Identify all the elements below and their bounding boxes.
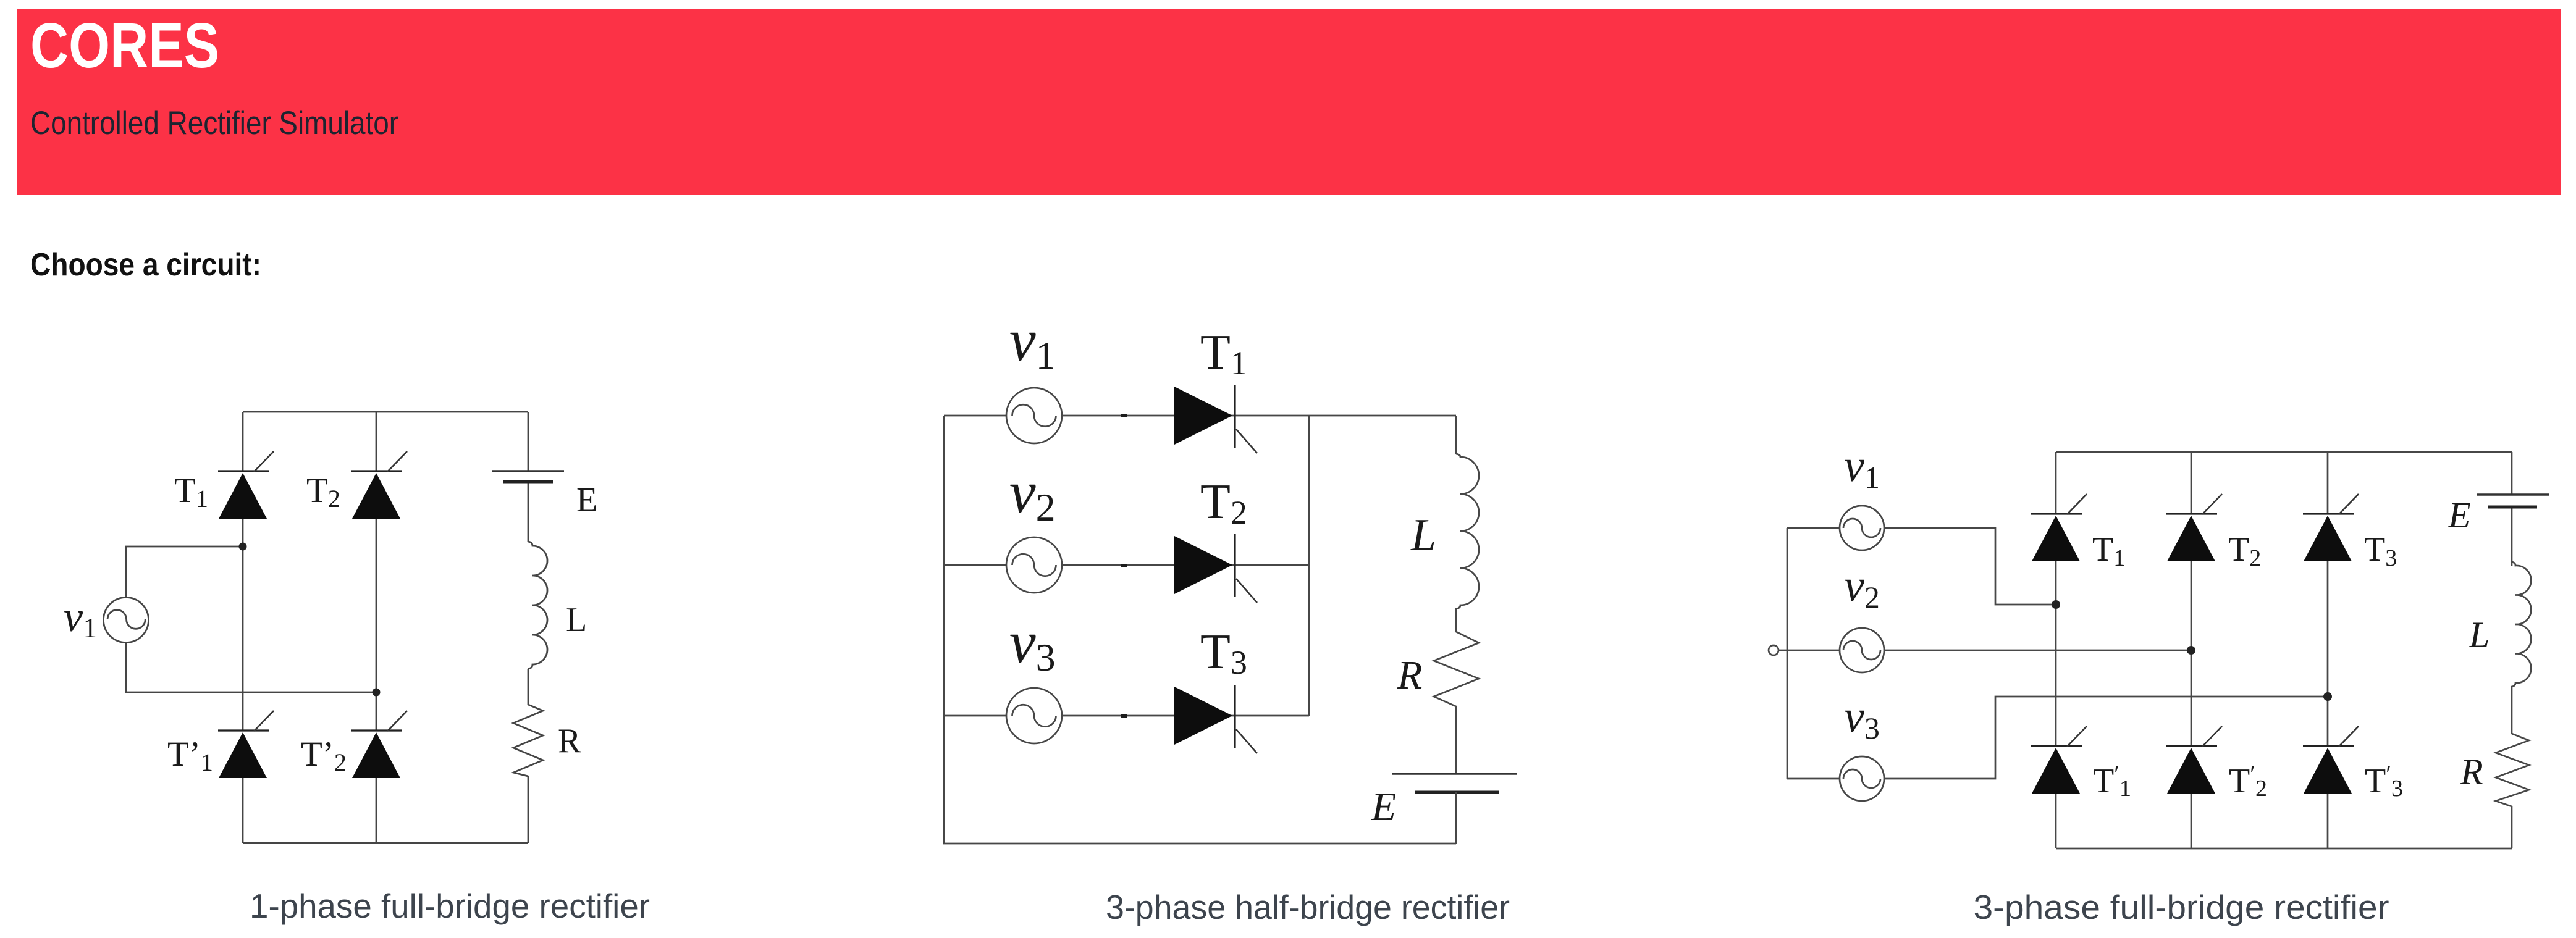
svg-text:v1: v1 (64, 593, 97, 643)
svg-text:3-phase full-bridge rectifier: 3-phase full-bridge rectifier (1974, 888, 2389, 926)
svg-text:v1: v1 (1844, 441, 1880, 495)
svg-text:T’1: T’1 (167, 735, 213, 776)
svg-text:v2: v2 (1009, 459, 1056, 529)
svg-text:R: R (558, 722, 581, 760)
svg-text:T1: T1 (2092, 530, 2125, 571)
svg-text:L: L (566, 601, 587, 639)
svg-text:T′2: T′2 (2229, 760, 2267, 802)
svg-text:v3: v3 (1844, 692, 1880, 745)
svg-text:T′3: T′3 (2365, 760, 2403, 802)
svg-text:T2: T2 (306, 471, 340, 513)
svg-text:Choose a circuit:: Choose a circuit: (30, 247, 261, 283)
svg-text:T3: T3 (1200, 625, 1247, 681)
svg-text:CORES: CORES (30, 10, 219, 81)
svg-text:1-phase full-bridge rectifier: 1-phase full-bridge rectifier (250, 887, 650, 925)
svg-text:T1: T1 (174, 471, 208, 513)
svg-text:T3: T3 (2364, 530, 2397, 571)
svg-text:L: L (2469, 614, 2490, 655)
svg-text:R: R (1397, 653, 1422, 698)
svg-text:T′1: T′1 (2093, 760, 2131, 802)
svg-text:v2: v2 (1844, 561, 1880, 614)
svg-text:T2: T2 (1200, 475, 1247, 531)
svg-text:T2: T2 (2228, 530, 2261, 571)
svg-text:v3: v3 (1009, 609, 1056, 679)
svg-text:3-phase half-bridge rectifier: 3-phase half-bridge rectifier (1106, 888, 1510, 926)
svg-text:T’2: T’2 (301, 735, 347, 776)
svg-text:E: E (1371, 784, 1396, 829)
svg-text:E: E (576, 481, 597, 519)
svg-text:E: E (2448, 495, 2471, 535)
svg-text:v1: v1 (1009, 307, 1056, 377)
svg-text:L: L (1410, 510, 1436, 561)
svg-text:Controlled Rectifier Simulator: Controlled Rectifier Simulator (30, 105, 398, 141)
svg-text:T1: T1 (1200, 325, 1247, 382)
svg-text:R: R (2460, 752, 2483, 792)
